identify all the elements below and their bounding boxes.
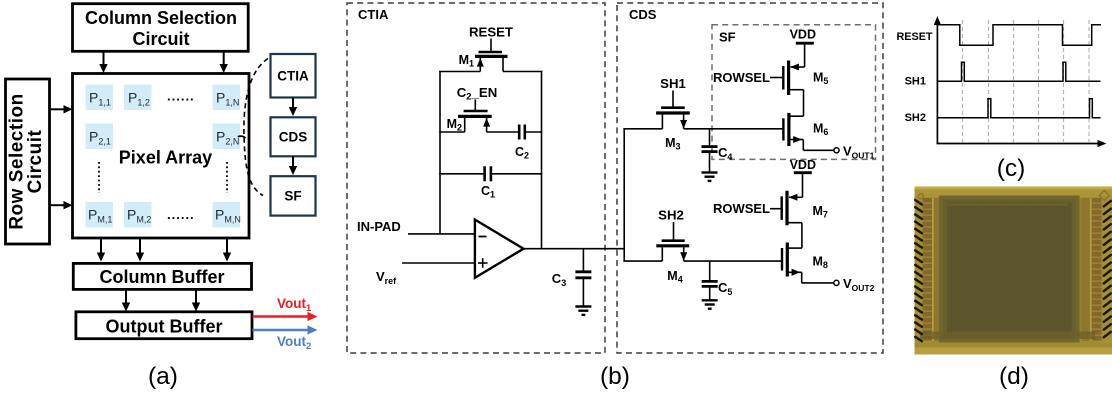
timing grid dashed lines: [963, 20, 1090, 142]
capacitor C5: [702, 281, 718, 299]
callout tick at P2,N: [238, 136, 246, 138]
wire M1 left to rail: [439, 71, 480, 73]
wire arrow CTIA to CDS: [289, 98, 297, 117]
svg-text:Vout2: Vout2: [277, 334, 311, 352]
transistor M1: [475, 39, 508, 72]
svg-text:M1: M1: [459, 53, 474, 69]
wire bus to M4: [623, 260, 662, 262]
wire C4 stem: [709, 129, 711, 147]
svg-text:(c): (c): [997, 155, 1026, 182]
transistor M4: [656, 222, 689, 261]
svg-text:VDD: VDD: [790, 28, 816, 42]
svg-text:RESET: RESET: [469, 25, 513, 40]
dashed callout curve from P2,N to CTIA/SF: [244, 59, 268, 196]
pixel P2,N: [213, 124, 241, 150]
pixel P1,1: [86, 85, 114, 111]
svg-text:(a): (a): [148, 363, 178, 390]
svg-text:C2_EN: C2_EN: [457, 85, 497, 103]
CTIA dashed box: [347, 3, 605, 353]
pixel P2,1: [86, 124, 114, 150]
svg-text:CDS: CDS: [629, 7, 657, 22]
svg-text:C1: C1: [481, 184, 495, 200]
right vertical dots: [226, 162, 228, 193]
svg-text:RESET: RESET: [897, 31, 933, 43]
svg-text:M6: M6: [813, 122, 828, 138]
pixel PM,1: [86, 202, 114, 228]
VOUT2 terminal: [834, 280, 839, 285]
svg-text:......: ......: [167, 89, 195, 104]
wire M4 to M8 gate: [684, 260, 782, 262]
svg-text:C4: C4: [718, 145, 732, 162]
svg-text:Column Selection: Column Selection: [85, 8, 237, 28]
wire arrow array to column buffer 2: [136, 238, 144, 262]
wire arrow colsel to array right: [220, 50, 228, 73]
transistor M2: [458, 100, 492, 133]
transistor M5: [783, 61, 804, 117]
chip micrograph: [915, 187, 1112, 355]
Pixel Array block: [73, 74, 250, 239]
wire arrow rowsel to array bottom: [50, 201, 73, 209]
svg-text:ROWSEL: ROWSEL: [713, 70, 770, 85]
svg-text:Circuit: Circuit: [132, 29, 189, 49]
ground under C5: [702, 300, 718, 308]
VDD supply bar bottom: [794, 173, 812, 198]
right feedback rail: [541, 71, 543, 249]
VDD supply bar top: [796, 43, 814, 67]
wire M1 right to rail: [503, 71, 542, 73]
wire M2 right to C2: [487, 131, 520, 133]
bond wires right: [1104, 201, 1111, 337]
SF block: [271, 176, 316, 215]
wire IN-PAD to opamp minus: [408, 233, 476, 235]
svg-text:M7: M7: [813, 204, 828, 220]
Column Buffer block: [73, 263, 251, 289]
CTIA block: [271, 54, 316, 98]
wire C1 row right: [491, 173, 542, 175]
Column Selection Circuit block: [73, 4, 249, 52]
wire arrow array to column buffer 1: [97, 238, 105, 262]
SH1 waveform: [937, 62, 1100, 81]
svg-text:CTIA: CTIA: [277, 69, 309, 84]
svg-text:IN-PAD: IN-PAD: [357, 219, 401, 234]
svg-text:C5: C5: [718, 280, 732, 297]
wire arrow colsel to array left: [99, 50, 107, 73]
ground under C4: [702, 173, 718, 181]
wire M3 to M6 gate: [684, 128, 783, 130]
Vout2 blue arrow: [253, 325, 318, 334]
svg-text:SH1: SH1: [905, 75, 926, 87]
svg-text:M8: M8: [813, 255, 828, 271]
transistor M7: [782, 191, 803, 248]
wire arrow column buffer to output buffer 2: [192, 289, 200, 312]
pixel P1,2: [124, 85, 152, 111]
left feedback rail: [439, 71, 441, 234]
svg-text:SH2: SH2: [905, 112, 926, 124]
Vout1 red arrow: [253, 312, 318, 321]
wire bus to M3: [623, 128, 662, 130]
svg-text:Vref: Vref: [376, 269, 397, 286]
svg-text:Vout1: Vout1: [277, 296, 312, 314]
svg-text:VOUT2: VOUT2: [843, 276, 875, 293]
svg-text:SH1: SH1: [660, 76, 686, 91]
wire arrow CDS to SF: [289, 156, 297, 175]
capacitor C4: [702, 147, 718, 172]
CDS input bus: [623, 128, 625, 261]
wire ROWSEL to M5 gate: [770, 77, 783, 79]
svg-text:VOUT1: VOUT1: [843, 144, 875, 161]
svg-text:M2: M2: [447, 117, 462, 133]
svg-text:Column Buffer: Column Buffer: [100, 267, 225, 287]
op-amp U1: [475, 220, 524, 278]
svg-text:Output Buffer: Output Buffer: [106, 316, 223, 336]
svg-text:M4: M4: [667, 269, 682, 285]
alignment circle mark: [918, 194, 923, 199]
SH2 waveform: [937, 99, 1100, 118]
svg-text:SF: SF: [284, 189, 301, 204]
svg-text:C3: C3: [552, 271, 566, 288]
svg-text:Pixel Array: Pixel Array: [119, 148, 212, 168]
CDS block: [271, 117, 316, 156]
wire C5 stem: [709, 261, 711, 281]
left vertical dots: [98, 162, 100, 193]
wire C1 row left: [439, 173, 484, 175]
wire M2 left to rail: [439, 131, 465, 133]
pixel PM,N: [213, 202, 241, 228]
svg-text:M5: M5: [813, 71, 828, 87]
svg-text:Circuit: Circuit: [25, 129, 46, 193]
svg-text:(b): (b): [600, 363, 630, 390]
transistor M6: [783, 113, 834, 150]
svg-text:CTIA: CTIA: [358, 7, 389, 22]
svg-text:(d): (d): [999, 363, 1029, 390]
Row Selection Circuit block: [6, 79, 50, 244]
wire arrow array to column buffer 3: [223, 238, 231, 262]
capacitor C2: [519, 125, 542, 140]
wire Vref to opamp plus: [402, 262, 476, 264]
RESET waveform: [937, 25, 1101, 45]
svg-text:SH2: SH2: [658, 208, 684, 223]
bond wires left: [915, 200, 922, 341]
VOUT1 terminal: [834, 148, 839, 153]
ground under C3: [575, 307, 591, 315]
svg-text:CDS: CDS: [279, 130, 308, 145]
capacitor C3: [575, 272, 591, 306]
wire ROWSEL to M7 gate: [770, 208, 782, 210]
svg-text:ROWSEL: ROWSEL: [713, 201, 770, 216]
Output Buffer block: [76, 312, 252, 339]
alignment diamond mark: [1099, 191, 1109, 201]
capacitor C1: [485, 166, 491, 181]
transistor M3: [656, 91, 690, 129]
svg-text:M3: M3: [665, 136, 680, 152]
svg-text:......: ......: [167, 207, 195, 222]
wire opamp output row: [523, 248, 626, 250]
wire C3 stem top: [582, 249, 584, 272]
SF dashed box: [712, 25, 876, 160]
svg-text:C2: C2: [515, 145, 529, 161]
wire arrow column buffer to output buffer 1: [122, 289, 130, 312]
CDS dashed box: [617, 3, 883, 353]
pixel P1,N: [213, 85, 241, 111]
svg-text:SF: SF: [719, 30, 736, 45]
wire arrow rowsel to array top: [50, 105, 73, 113]
pixel PM,2: [124, 202, 152, 228]
svg-text:VDD: VDD: [790, 158, 816, 172]
timing axes: [934, 16, 1107, 147]
transistor M8: [782, 243, 834, 283]
